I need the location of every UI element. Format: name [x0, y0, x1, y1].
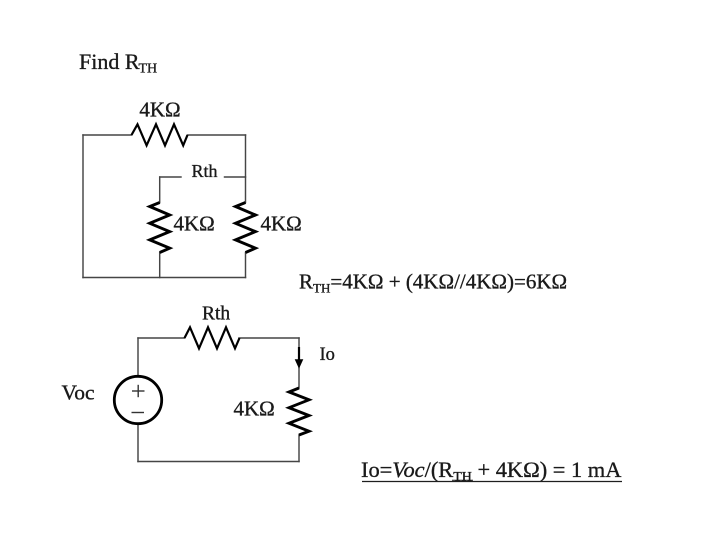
svg-text:Rth: Rth [202, 304, 230, 325]
svg-text:Rth: Rth [192, 161, 218, 181]
svg-text:TH: TH [139, 62, 158, 77]
svg-text:4KΩ: 4KΩ [261, 212, 302, 236]
svg-text:4KΩ: 4KΩ [174, 212, 215, 236]
svg-text:Io: Io [320, 345, 335, 365]
svg-text:4KΩ: 4KΩ [139, 98, 180, 122]
svg-text:Find R: Find R [79, 49, 140, 74]
svg-text:Voc: Voc [62, 381, 95, 405]
svg-text:4KΩ: 4KΩ [234, 397, 275, 421]
svg-text:RTH=4KΩ + (4KΩ//4KΩ)=6KΩ: RTH=4KΩ + (4KΩ//4KΩ)=6KΩ [299, 270, 567, 296]
